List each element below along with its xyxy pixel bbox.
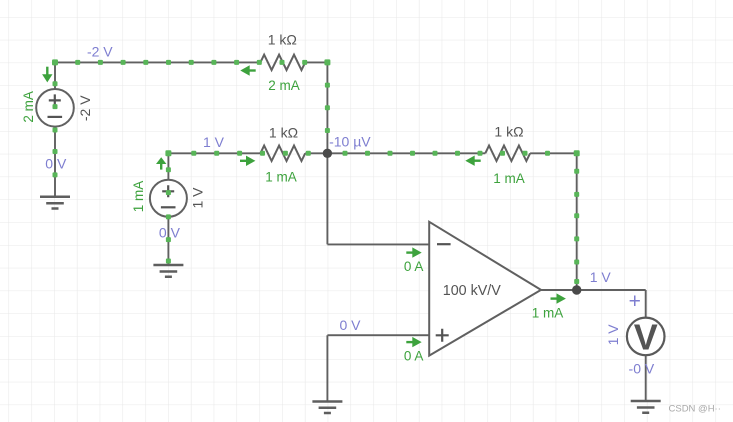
current arrow at R2 (right)	[240, 156, 255, 166]
svg-text:1 mA: 1 mA	[532, 305, 564, 320]
node A (junction -10uV)	[323, 149, 332, 158]
svg-text:-2 V: -2 V	[77, 95, 93, 121]
svg-text:1 V: 1 V	[590, 269, 612, 285]
wire: voltmeter top stub	[645, 290, 647, 318]
wire: vertical corner down to node A	[326, 62, 328, 153]
current dots top row	[75, 59, 330, 65]
wire: voltmeter bottom stub to ground	[645, 355, 647, 401]
svg-text:1 mA: 1 mA	[493, 171, 525, 186]
wire: node A down to inverting input row	[326, 153, 328, 244]
svg-text:1 kΩ: 1 kΩ	[494, 123, 523, 139]
voltage source V1 -2V	[36, 89, 74, 127]
current arrow at non-inverting input (right)	[406, 337, 421, 347]
wire: V1 top stub	[54, 62, 56, 89]
node output junction	[572, 285, 581, 294]
current arrow at R1 (left)	[240, 65, 255, 75]
svg-text:100 kV/V: 100 kV/V	[443, 283, 501, 299]
svg-text:CSDN @H··: CSDN @H··	[669, 404, 721, 415]
current arrow at inverting input (right)	[406, 247, 421, 257]
svg-text:0 V: 0 V	[159, 225, 181, 241]
svg-text:+: +	[629, 290, 641, 313]
wire: V2 top stub to row2	[167, 153, 169, 180]
svg-text:0 V: 0 V	[45, 156, 67, 172]
svg-text:2 mA: 2 mA	[21, 91, 36, 123]
wire: op-amp output to output node	[541, 289, 577, 291]
wire: top row from V1 to R1	[55, 61, 260, 63]
svg-text:1 mA: 1 mA	[265, 169, 297, 184]
wire: V1 bottom stub to ground	[54, 126, 56, 196]
current dots feedback column	[574, 169, 579, 284]
svg-text:1 kΩ: 1 kΩ	[268, 32, 297, 48]
current arrow at V2 (up)	[156, 157, 166, 169]
wire: feedback vertical down to output node	[576, 153, 578, 290]
current dots row2 left	[191, 151, 310, 156]
wire: non-inverting corner down to ground	[326, 335, 328, 401]
voltmeter	[627, 316, 665, 357]
svg-text:-0 V: -0 V	[629, 361, 655, 377]
current arrow at V1 (down)	[42, 67, 52, 83]
current arrow at R3 (left)	[465, 156, 480, 166]
wire: row2 from R3 to feedback corner	[530, 152, 577, 154]
op-amp U1	[429, 222, 541, 356]
ground (voltmeter)	[631, 401, 661, 413]
svg-text:1 V: 1 V	[605, 324, 621, 346]
svg-text:0 A: 0 A	[404, 259, 424, 274]
svg-text:1 V: 1 V	[203, 134, 225, 150]
svg-text:-2 V: -2 V	[87, 43, 113, 59]
wire: inverting input row to op-amp	[327, 243, 429, 245]
current dots corner column to node A	[325, 83, 330, 133]
resistor R2 1 kOhm (middle)	[260, 146, 305, 161]
ground (non-inverting input)	[312, 402, 342, 414]
wire: row2 from R2 to node A	[305, 152, 327, 154]
wire: row2 from node A to R3	[327, 152, 485, 154]
ground (V2)	[153, 265, 183, 277]
svg-text:1 kΩ: 1 kΩ	[269, 125, 298, 141]
svg-text:1 V: 1 V	[189, 187, 205, 209]
voltage source V2 1V	[150, 180, 187, 217]
current dots branch V2	[165, 150, 171, 263]
wire: row2 from V2 corner to R2	[168, 152, 260, 154]
svg-text:-10 µV: -10 µV	[329, 134, 371, 150]
ground (V1)	[40, 197, 70, 209]
svg-text:0 V: 0 V	[339, 317, 361, 333]
current dots branch V1	[52, 59, 58, 177]
wire: V2 bottom stub to ground	[167, 217, 169, 265]
svg-text:0 A: 0 A	[404, 349, 424, 364]
wire: output node to voltmeter corner	[577, 289, 646, 291]
resistor R3 1 kOhm (feedback)	[485, 146, 530, 161]
current arrow at output (right)	[551, 293, 566, 303]
current dots row2 right	[343, 150, 580, 156]
resistor R1 1 kOhm (top)	[260, 55, 305, 70]
wire: top row from R1 to corner	[305, 61, 327, 63]
wire: non-inverting input row to op-amp	[327, 334, 429, 336]
svg-text:V: V	[634, 316, 658, 357]
svg-text:1 mA: 1 mA	[131, 181, 146, 213]
svg-text:2 mA: 2 mA	[268, 78, 300, 93]
